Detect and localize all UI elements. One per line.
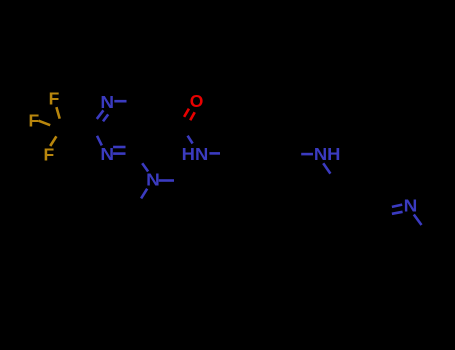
bond pyridine N-C6'' stub (414, 215, 422, 226)
double bond N3=C4 upper stub (113, 146, 125, 149)
double bond C=O left stub (184, 109, 189, 117)
bond amide N-C1' stub (209, 152, 220, 155)
double bond N1=C2 outer stub (97, 110, 104, 119)
double bond C2''=N upper stub (392, 205, 402, 207)
bond N7-CH3 lower-left stub (141, 189, 147, 199)
svg-text:NH: NH (314, 144, 341, 164)
svg-text:N: N (100, 92, 114, 112)
bond C(O)-N amide stub (188, 136, 193, 144)
bond N3-C2 stub (97, 136, 102, 146)
svg-text:N: N (146, 170, 160, 190)
svg-text:O: O (190, 91, 204, 111)
bond N-CH2 stub (323, 163, 330, 173)
bond F(bottom)-C stub (50, 136, 56, 146)
bond N7-CH3 right stub (159, 179, 174, 182)
svg-text:N: N (404, 195, 418, 215)
bond C4-N7 stub (142, 163, 148, 171)
bond C4'-N stub (to right NH) (301, 153, 313, 156)
svg-text:F: F (49, 88, 60, 108)
bond F(top)-C stub (56, 107, 59, 119)
svg-text:F: F (43, 144, 54, 164)
bond F(left)-C stub (39, 121, 51, 126)
double bond C2''=N lower stub (392, 212, 403, 214)
svg-text:N: N (100, 144, 114, 164)
double bond N1=C2 inner stub (103, 114, 108, 121)
svg-text:HN: HN (182, 144, 209, 164)
double bond N3=C4 lower stub (113, 152, 125, 155)
bond N1-C6 stub (114, 100, 126, 103)
svg-text:F: F (29, 111, 40, 131)
double bond C=O right stub (190, 112, 195, 120)
